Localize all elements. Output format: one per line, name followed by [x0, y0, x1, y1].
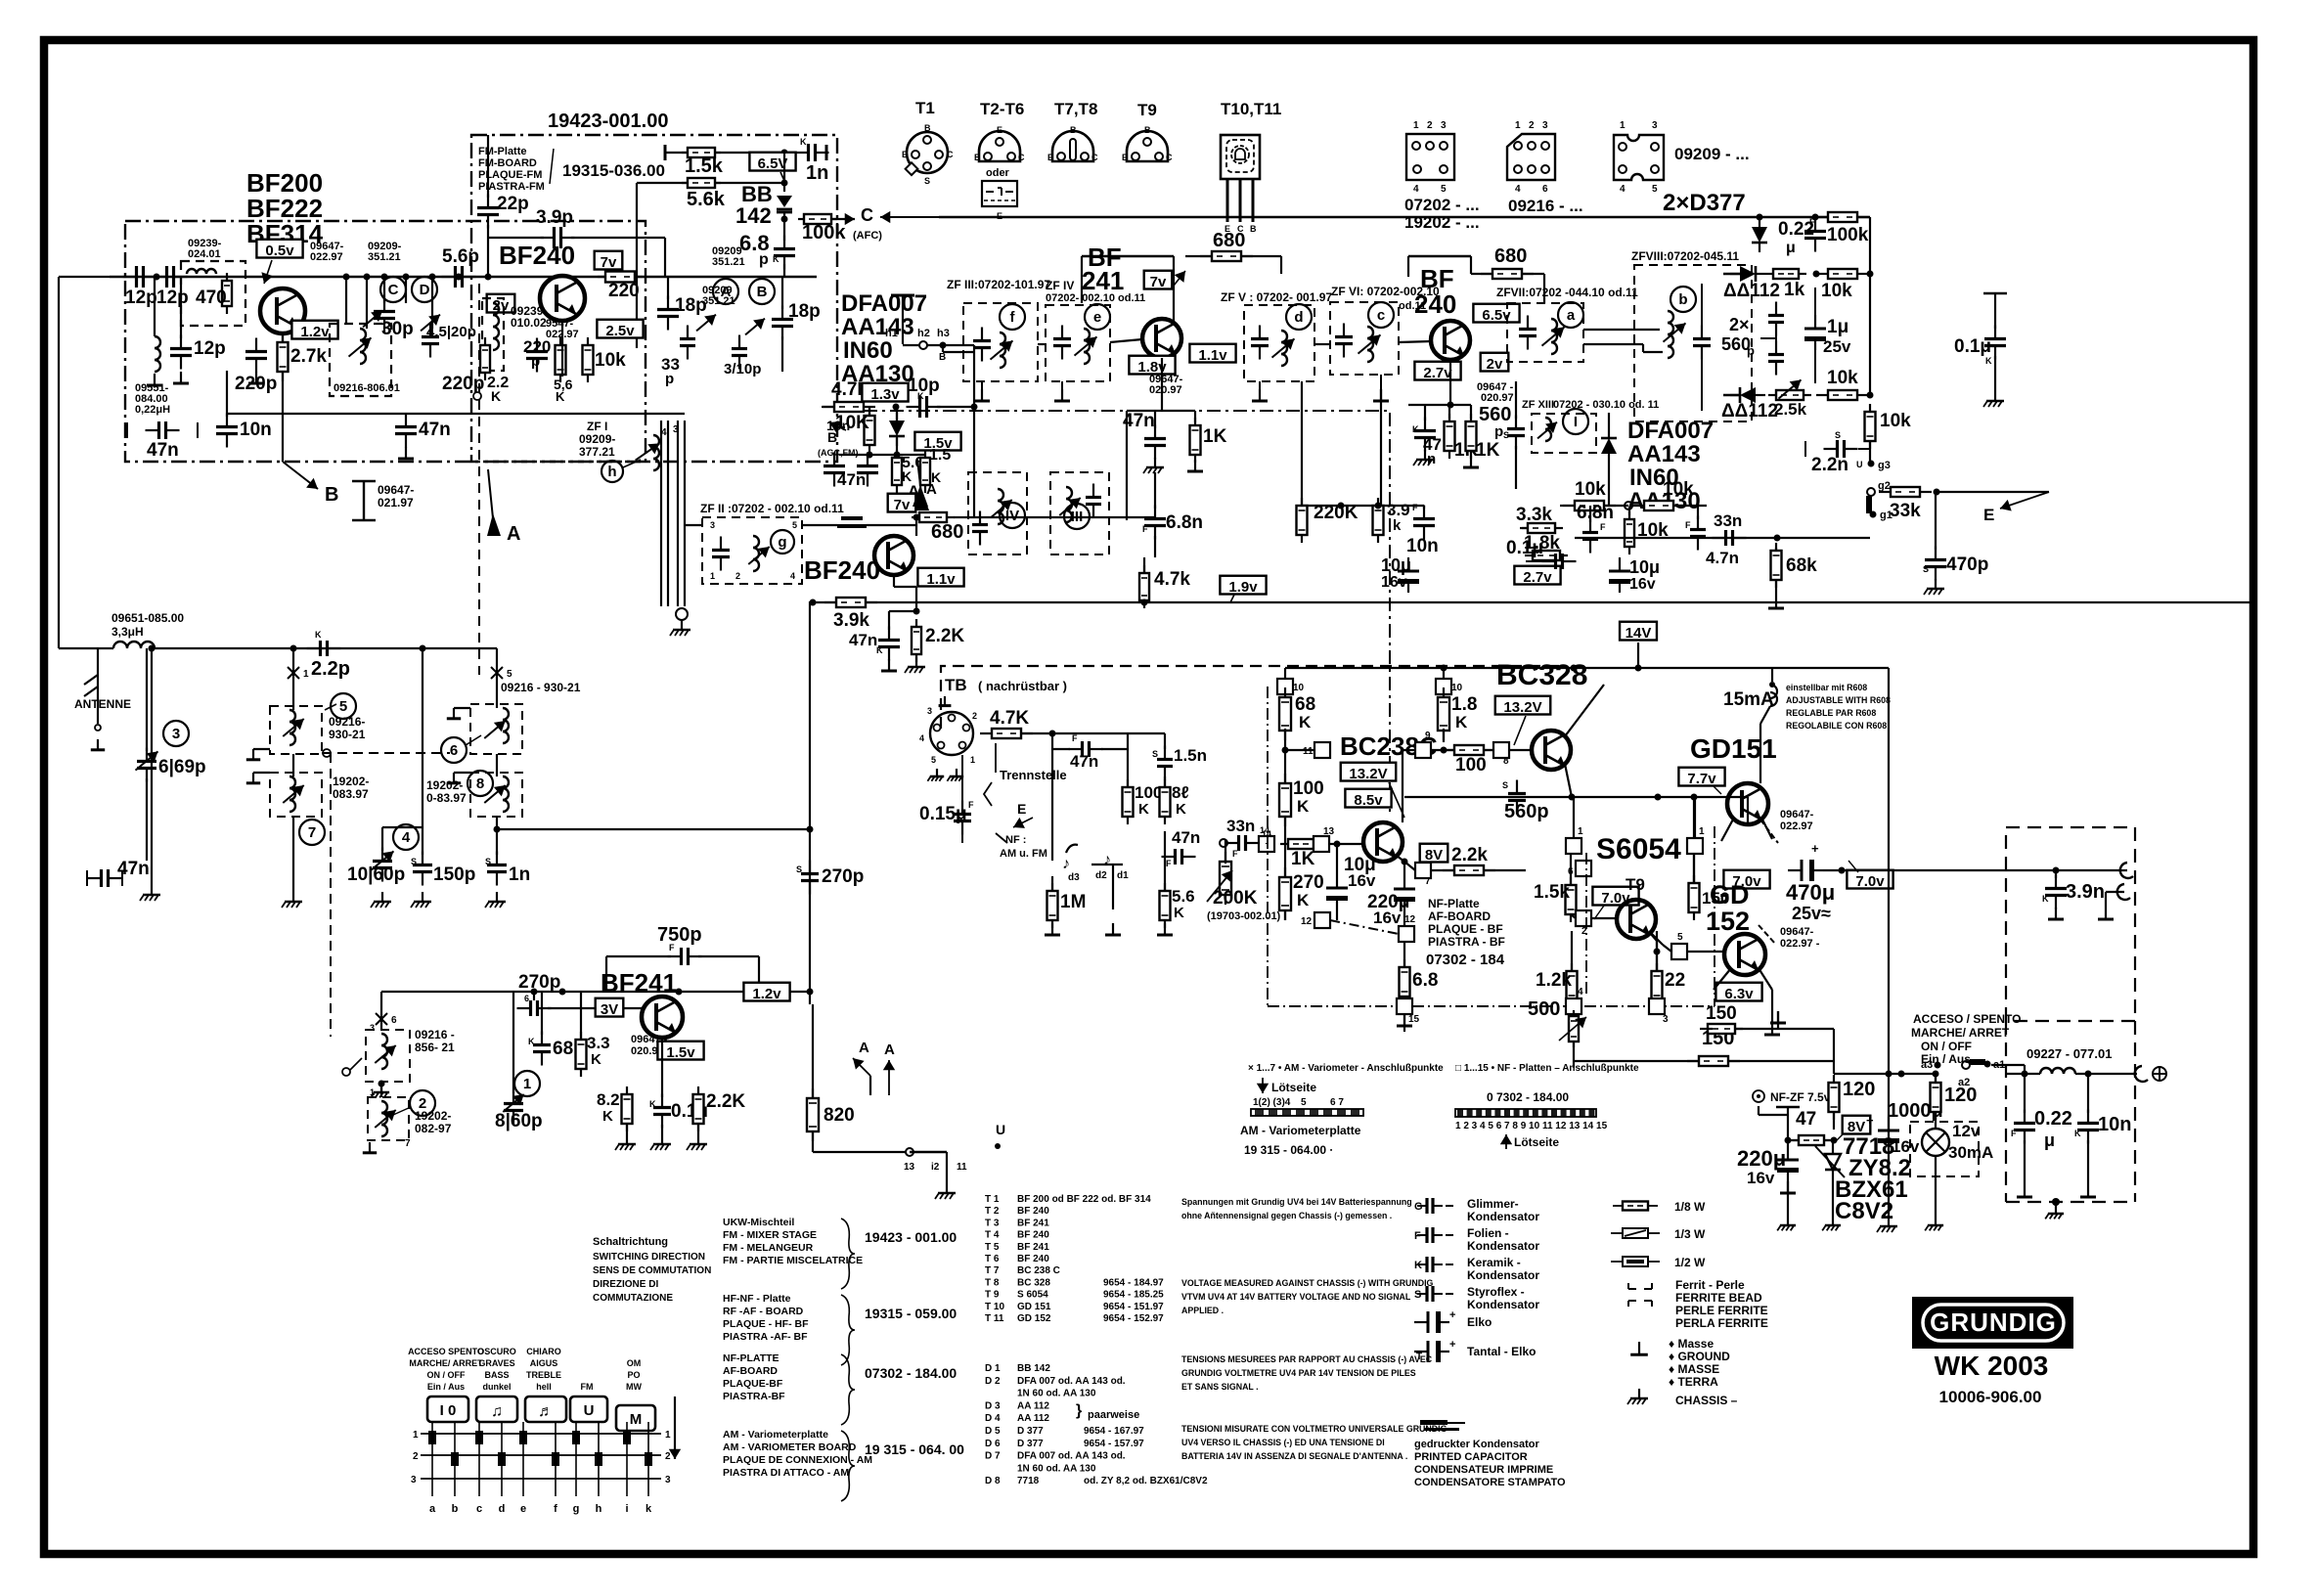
- svg-text:19423 - 001.00: 19423 - 001.00: [865, 1229, 957, 1245]
- svg-text:1k: 1k: [1784, 280, 1805, 300]
- svg-text:μ: μ: [1786, 240, 1796, 256]
- svg-text:T9: T9: [1626, 875, 1645, 894]
- svg-text:K: K: [1412, 424, 1419, 434]
- wire T8 collector: [1565, 685, 1604, 797]
- svg-text:T 11: T 11: [985, 1313, 1004, 1324]
- junction: [343, 274, 350, 281]
- svg-text:GD 152: GD 152: [1017, 1313, 1051, 1324]
- svg-text:7718: 7718: [1017, 1476, 1040, 1486]
- trim cap A: [696, 279, 738, 331]
- capacitor 10n if: [1406, 503, 1439, 556]
- svg-text:09647-: 09647-: [1780, 926, 1814, 938]
- svg-text:5: 5: [1441, 184, 1447, 195]
- svg-text:PIASTRA -AF- BF: PIASTRA -AF- BF: [723, 1331, 808, 1343]
- svg-text:K: K: [800, 137, 807, 147]
- svg-text:4.7n: 4.7n: [1706, 549, 1739, 567]
- svg-text:4: 4: [1515, 184, 1521, 195]
- pad 5: [1651, 932, 1724, 959]
- pinout T10 T11: [1221, 100, 1281, 234]
- svg-text:F: F: [1600, 522, 1606, 532]
- svg-text:1.3v: 1.3v: [870, 386, 900, 403]
- svg-text:MARCHE/ ARRET: MARCHE/ ARRET: [1911, 1026, 2010, 1040]
- node g3: [1856, 441, 1891, 471]
- wire 33n row: [1575, 535, 1870, 542]
- resistor 1.5k afc: [682, 148, 724, 177]
- capacitor 1n afc: [795, 137, 829, 184]
- resistor 820: [807, 1004, 855, 1141]
- lamp 12v: [1922, 1112, 1993, 1230]
- chassis legend: [1627, 1389, 1738, 1407]
- svg-text:1N 60 od. AA 130: 1N 60 od. AA 130: [1017, 1463, 1096, 1474]
- ZF IV box e: [1046, 304, 1110, 381]
- curl out2: [2117, 884, 2130, 900]
- svg-text:1: 1: [413, 1430, 419, 1441]
- svg-text:BC 238 C: BC 238 C: [1017, 1265, 1060, 1276]
- svg-text:T1: T1: [915, 99, 935, 117]
- svg-text:9654 - 167.97: 9654 - 167.97: [1084, 1426, 1144, 1437]
- resistor 2.2k af: [1431, 845, 1526, 875]
- svg-text:152: 152: [1706, 907, 1750, 936]
- resistor 1.5k agc: [920, 447, 951, 493]
- junction: [971, 404, 978, 411]
- svg-text:4: 4: [402, 829, 411, 846]
- ZF VII box a: [1507, 302, 1583, 362]
- svg-text:b: b: [1678, 291, 1687, 308]
- resistor 150 h: [1574, 1028, 1834, 1066]
- wire afc mid: [637, 153, 788, 348]
- svg-text:1.5: 1.5: [929, 447, 951, 464]
- svg-text:13.2V: 13.2V: [1503, 699, 1541, 716]
- svg-text:F: F: [1072, 733, 1078, 743]
- svg-text:h1: h1: [885, 328, 898, 339]
- svg-text:270: 270: [1293, 872, 1324, 893]
- pad box 09209: [1614, 120, 1750, 195]
- svg-text:2.2k: 2.2k: [1451, 845, 1488, 865]
- variometer 7: [270, 773, 325, 845]
- capacitor 560p if: [1479, 381, 1525, 489]
- pad 8: [1484, 742, 1532, 767]
- voltage 6.3v: [1715, 983, 1761, 1002]
- svg-text:7v: 7v: [1150, 274, 1167, 290]
- svg-text:14V: 14V: [1626, 625, 1652, 642]
- svg-text:BF 241: BF 241: [1017, 1218, 1049, 1228]
- svg-text:09647-: 09647-: [378, 483, 414, 497]
- svg-text:K: K: [649, 1099, 656, 1109]
- svg-text:Ein / Aus: Ein / Aus: [1921, 1052, 1971, 1066]
- svg-text:2.2K: 2.2K: [706, 1091, 745, 1112]
- svg-text:1K: 1K: [1476, 440, 1500, 461]
- arrow A1: [487, 469, 520, 545]
- transistor T7 BC238C: [1363, 822, 1403, 862]
- btn labels 3: [526, 1347, 561, 1392]
- capacitor 47n if2: [1412, 405, 1442, 467]
- svg-text:DIREZIONE DI: DIREZIONE DI: [593, 1279, 658, 1290]
- ground out2: [2098, 892, 2124, 919]
- svg-text:K: K: [917, 391, 924, 401]
- svg-text:4: 4: [919, 733, 924, 743]
- wire c-T4 link: [1399, 341, 1432, 342]
- capacitor 6.8n: [1142, 472, 1203, 557]
- svg-text:BF 240: BF 240: [1017, 1254, 1049, 1264]
- svg-text:T 5: T 5: [985, 1242, 1000, 1253]
- svg-text:K: K: [591, 1051, 601, 1068]
- svg-text:8.2: 8.2: [597, 1090, 620, 1109]
- svg-text:15mA: 15mA: [1723, 689, 1774, 710]
- svg-text:Styroflex -: Styroflex -: [1467, 1285, 1525, 1299]
- pad 9: [1403, 731, 1447, 822]
- wire am left down: [151, 648, 153, 861]
- svg-text:d2: d2: [1095, 870, 1107, 881]
- label BF241 osc: [601, 968, 677, 997]
- svg-text:S6054: S6054: [1596, 833, 1681, 865]
- svg-text:15: 15: [1408, 1014, 1420, 1025]
- btn labels 1: [408, 1347, 484, 1392]
- svg-text:F: F: [1685, 520, 1691, 530]
- label S6054: [1596, 833, 1681, 865]
- wire emitter T1: [282, 333, 284, 462]
- svg-text:D 2: D 2: [985, 1376, 1001, 1387]
- svg-text:ZF V : 07202- 001.97: ZF V : 07202- 001.97: [1221, 290, 1332, 304]
- svg-text:2.2K: 2.2K: [925, 626, 964, 646]
- svg-text:A: A: [859, 1040, 869, 1056]
- resistor 1K if3: [1463, 405, 1500, 467]
- svg-text:B: B: [939, 352, 946, 363]
- wire: [939, 216, 1870, 218]
- capacitor 470p: [1923, 492, 1988, 595]
- svg-text:1 2 3 4 5 6 7 8 9 10 11 1: 1 2 3 4 5 6 7 8 9 10 11 12 13 14 15: [1455, 1121, 1608, 1131]
- inductor 470 box 09239-074.01: [181, 238, 245, 326]
- svg-text:8ℓ: 8ℓ: [1172, 783, 1189, 802]
- svg-text:33k: 33k: [1890, 501, 1921, 521]
- svg-text:22: 22: [1665, 970, 1685, 991]
- svg-text:5: 5: [1301, 1097, 1307, 1108]
- svg-text:p: p: [759, 251, 769, 268]
- svg-text:220p: 220p: [442, 374, 484, 394]
- pad box 07202: [1404, 120, 1480, 232]
- ZF II box g: [702, 517, 802, 584]
- NF dashed box: [941, 666, 1562, 729]
- svg-text:5.6p: 5.6p: [442, 246, 479, 267]
- junction: [1757, 214, 1763, 221]
- svg-text:220: 220: [608, 281, 640, 301]
- wire nfzf stub: [1759, 1106, 1800, 1140]
- svg-text:33n: 33n: [1226, 817, 1255, 835]
- svg-text:♦ TERRA: ♦ TERRA: [1669, 1375, 1718, 1389]
- svg-text:a: a: [429, 1503, 436, 1515]
- svg-text:+: +: [1811, 841, 1819, 856]
- svg-text:d3: d3: [1068, 872, 1080, 883]
- curl ps: [2135, 1066, 2166, 1082]
- svg-text:S: S: [796, 864, 802, 874]
- svg-text:07202 - ...: 07202 - ...: [1404, 196, 1480, 214]
- svg-text:REGOLABILE CON R608: REGOLABILE CON R608: [1786, 721, 1887, 731]
- junction: [893, 404, 900, 411]
- capacitor 1.5n: [1128, 733, 1207, 780]
- transistor T11 GD152: [1724, 934, 1765, 975]
- curl out1: [2120, 863, 2133, 878]
- svg-text:+: +: [1866, 1113, 1874, 1128]
- svg-text:47n: 47n: [1123, 411, 1155, 431]
- svg-text:AM - Variometerplatte: AM - Variometerplatte: [723, 1429, 828, 1441]
- resistor 2.2k g: [905, 608, 964, 674]
- resistor 1K if1: [1162, 411, 1227, 471]
- svg-text:1μ: 1μ: [1827, 317, 1848, 337]
- svg-text:K: K: [315, 630, 322, 640]
- svg-text:1.9v: 1.9v: [1228, 579, 1258, 596]
- label 09209 351.21 afc: [712, 245, 745, 268]
- svg-text:Folien -: Folien -: [1467, 1226, 1509, 1240]
- svg-text:T7,T8: T7,T8: [1054, 100, 1097, 118]
- svg-text:47n: 47n: [1172, 828, 1200, 847]
- svg-text:10k: 10k: [595, 350, 626, 371]
- svg-text:4.5|20p: 4.5|20p: [426, 324, 476, 340]
- svg-text:1.8: 1.8: [1451, 694, 1477, 715]
- svg-text:PLAQUE - HF- BF: PLAQUE - HF- BF: [723, 1318, 809, 1330]
- label FM-Platte: [478, 146, 665, 193]
- svg-text:19315 - 059.00: 19315 - 059.00: [865, 1306, 957, 1321]
- svg-text:E: E: [1047, 153, 1053, 162]
- svg-text:C: C: [861, 205, 873, 225]
- svg-text:4: 4: [1578, 987, 1583, 997]
- svg-text:10k: 10k: [1880, 411, 1911, 431]
- svg-text:TB: TB: [945, 676, 967, 694]
- wattage 1/2: [1611, 1256, 1706, 1269]
- brace 4: [841, 1431, 964, 1501]
- svg-text:8|60p: 8|60p: [495, 1111, 543, 1131]
- label 9547-022.97: [546, 318, 579, 340]
- label DFA007 group1: [841, 290, 927, 387]
- loetseite nf: [1500, 1134, 1560, 1149]
- junction: [381, 274, 388, 281]
- wire f-e link: [1038, 343, 1046, 345]
- svg-text:dunkel: dunkel: [482, 1382, 511, 1392]
- svg-text:h: h: [596, 1503, 602, 1515]
- svg-text:7.0v: 7.0v: [1855, 873, 1885, 890]
- svg-text:4.7k: 4.7k: [1154, 569, 1190, 590]
- svg-text:30mA: 30mA: [1948, 1143, 1993, 1162]
- svg-text:3.3: 3.3: [587, 1034, 610, 1052]
- resistor 10k m2: [1632, 479, 1707, 510]
- label 47: [1785, 1109, 1838, 1145]
- svg-text:8: 8: [476, 776, 484, 792]
- jumper 15mA: [1760, 668, 1777, 783]
- svg-text:5: 5: [792, 520, 797, 530]
- svg-text:ZFVII:07202 -044.10 od.11: ZFVII:07202 -044.10 od.11: [1496, 286, 1638, 299]
- note it: [1181, 1424, 1447, 1461]
- svg-text:3: 3: [1441, 120, 1447, 131]
- svg-text:E: E: [997, 125, 1002, 135]
- supply rail: [1834, 1071, 1934, 1078]
- label 09216-930.21 b: [501, 681, 581, 694]
- label NF AM FM: [1000, 834, 1047, 860]
- svg-text:D 3: D 3: [985, 1400, 1001, 1411]
- svg-text:150p: 150p: [433, 864, 475, 885]
- wire 10p to f: [973, 407, 975, 517]
- svg-text:351.21: 351.21: [368, 251, 401, 263]
- wire out rail: [1823, 867, 2127, 874]
- pot 200K: [1207, 840, 1281, 922]
- button U: [570, 1396, 607, 1422]
- svg-text:ADJUSTABLE WITH R608: ADJUSTABLE WITH R608: [1786, 695, 1891, 705]
- svg-text:7: 7: [308, 824, 316, 841]
- svg-text:1/8 W: 1/8 W: [1674, 1200, 1706, 1214]
- svg-text:T 8: T 8: [985, 1277, 1000, 1288]
- left vertical: [59, 277, 110, 648]
- resistor 1M: [1045, 876, 1086, 935]
- wire emitter T2 down: [561, 321, 563, 377]
- capacitor 0.22 ps: [2011, 1074, 2072, 1197]
- svg-text:K: K: [1297, 797, 1310, 816]
- svg-text:T 4: T 4: [985, 1230, 1000, 1241]
- label DFA007 group2: [1627, 418, 1714, 514]
- wire T5 collector: [916, 517, 918, 536]
- svg-text:AF-BOARD: AF-BOARD: [1428, 909, 1491, 923]
- svg-text:DFA 007 od. AA 143 od.: DFA 007 od. AA 143 od.: [1017, 1376, 1126, 1387]
- transistor T8 BC328: [1532, 731, 1571, 770]
- svg-text:T 2: T 2: [985, 1206, 1000, 1217]
- IF board dashdot: [837, 411, 1390, 812]
- voltage 2v: [487, 294, 515, 314]
- svg-text:T: T: [1416, 1352, 1422, 1362]
- svg-text:μ: μ: [2044, 1130, 2055, 1150]
- svg-text:}: }: [1076, 1402, 1082, 1419]
- svg-text:377.21: 377.21: [579, 445, 615, 459]
- svg-text:HF-NF - Platte: HF-NF - Platte: [723, 1293, 791, 1305]
- wire variometer col1: [282, 648, 302, 908]
- svg-text:GD: GD: [1710, 880, 1750, 909]
- capacitor 47n if1: [1123, 411, 1166, 473]
- svg-text:g: g: [573, 1503, 580, 1515]
- svg-text:NF-ZF 7.5v: NF-ZF 7.5v: [1770, 1090, 1831, 1104]
- x mark 6b: [376, 1013, 397, 1026]
- lamp dashed box: [1910, 1122, 1979, 1176]
- svg-text:AF-BOARD: AF-BOARD: [723, 1365, 778, 1377]
- svg-text:FM: FM: [581, 1382, 594, 1392]
- svg-text:1n: 1n: [806, 162, 828, 184]
- resistor 100 af: [1431, 745, 1495, 776]
- resistor 5.6k agc: [892, 450, 923, 493]
- svg-text:560: 560: [1479, 404, 1511, 425]
- capacitor 47n lead: [127, 421, 198, 461]
- label 3.3uH: [111, 611, 184, 639]
- svg-text:VOLTAGE MEASURED AGAINST CH: VOLTAGE MEASURED AGAINST CHASSIS (-) WIT…: [1181, 1278, 1434, 1288]
- svg-text:8.5v: 8.5v: [1354, 792, 1383, 809]
- svg-text:7v: 7v: [894, 497, 911, 513]
- svg-text:3: 3: [927, 706, 932, 716]
- svg-text:♪: ♪: [1062, 856, 1070, 872]
- svg-text:16v: 16v: [1747, 1169, 1775, 1187]
- svg-text:0.22: 0.22: [2034, 1108, 2072, 1130]
- svg-text:19423-001.00: 19423-001.00: [548, 111, 668, 132]
- resistor 120 a: [1829, 1075, 1876, 1130]
- switch down arrow: [669, 1396, 681, 1459]
- svg-text:AA 112: AA 112: [1017, 1400, 1049, 1411]
- wire gd152 base rail: [1714, 968, 1731, 990]
- resistor 3.3k: [1516, 505, 1563, 533]
- svg-text:12: 12: [1404, 914, 1416, 925]
- svg-text:ZF I: ZF I: [587, 420, 607, 433]
- svg-text:S: S: [1923, 564, 1929, 574]
- svg-text:07302 - 184: 07302 - 184: [1426, 952, 1505, 968]
- svg-text:D: D: [420, 282, 430, 298]
- button bass: [476, 1396, 517, 1422]
- svg-text:PLAQUE-BF: PLAQUE-BF: [723, 1378, 783, 1390]
- svg-text:GD151: GD151: [1690, 733, 1777, 764]
- label BB142: [735, 182, 773, 228]
- svg-text:16v: 16v: [1892, 1137, 1920, 1156]
- svg-text:h3: h3: [937, 328, 950, 339]
- svg-text:M: M: [630, 1411, 643, 1428]
- svg-text:1: 1: [1515, 120, 1521, 131]
- svg-text:220K: 220K: [1314, 503, 1358, 523]
- label BF240: [499, 241, 575, 270]
- transistor T5 BF241 g: [804, 536, 913, 585]
- junction: [154, 274, 160, 281]
- svg-text:B: B: [1144, 125, 1151, 135]
- pad 6: [1568, 861, 1591, 877]
- svg-text:f: f: [554, 1503, 557, 1515]
- svg-text:6.8n: 6.8n: [1166, 512, 1203, 533]
- svg-text:11: 11: [1303, 746, 1314, 757]
- capacitor 10n: [216, 371, 272, 448]
- capacitor 270p osc2: [517, 972, 561, 1016]
- svg-text:F: F: [1142, 524, 1148, 534]
- right dashed box: [2006, 827, 2135, 1021]
- svg-text:OM: OM: [627, 1358, 642, 1368]
- resistor 10k m1: [1560, 479, 1628, 510]
- svg-text:g2: g2: [1878, 480, 1891, 492]
- svg-text:16v: 16v: [1381, 574, 1407, 591]
- switch contacts: [428, 1422, 652, 1496]
- svg-text:p: p: [1494, 423, 1503, 440]
- svg-text:C: C: [947, 150, 954, 159]
- resistor 2.2k fm: [480, 337, 509, 404]
- junction if rail: [1338, 503, 1382, 510]
- svg-text:12p: 12p: [156, 288, 189, 308]
- svg-text:1.5v: 1.5v: [666, 1044, 695, 1061]
- voltage 1.2v: [291, 321, 337, 340]
- svg-text:09651-085.00: 09651-085.00: [111, 611, 184, 625]
- svg-text:Lötseite: Lötseite: [1514, 1135, 1559, 1149]
- capacitor 3.9n: [2042, 867, 2105, 920]
- svg-text:3: 3: [665, 1475, 671, 1485]
- svg-text:09209 - ...: 09209 - ...: [1674, 145, 1750, 163]
- ground tb mid: [1105, 864, 1121, 935]
- svg-text:6.3v: 6.3v: [1724, 986, 1754, 1002]
- svg-text:D 377: D 377: [1017, 1426, 1044, 1437]
- S6054 board dashdot: [1585, 853, 1587, 997]
- capacitor 1n am: [485, 826, 530, 909]
- voltage 1.2v osc: [743, 983, 789, 1002]
- label on off: [1911, 1012, 2021, 1066]
- resistor 5.6k afc: [682, 178, 726, 210]
- svg-text:b: b: [452, 1503, 459, 1515]
- capacitor 2.2p am: [307, 630, 351, 680]
- label 09647-020.97 a: [1149, 374, 1183, 396]
- bottom rail fm: [227, 413, 685, 415]
- svg-text:09216 - 930-21: 09216 - 930-21: [501, 681, 581, 694]
- node C AFC: [853, 205, 939, 242]
- svg-text:E: E: [902, 150, 908, 159]
- long rail 1.9v: [813, 601, 2253, 603]
- svg-text:S: S: [1152, 749, 1158, 759]
- label 19202-083.97 b: [426, 778, 467, 805]
- dashed am link: [322, 749, 450, 1037]
- svg-text:68: 68: [1295, 694, 1315, 715]
- wire afc right: [1869, 217, 1871, 274]
- wire osc row: [381, 989, 810, 1031]
- capacitor 12p a: [123, 266, 157, 308]
